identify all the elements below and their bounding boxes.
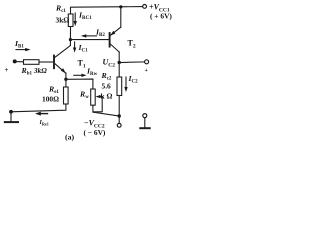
wire Re1 bottom to ground xyxy=(11,104,66,112)
svg-text:100Ω: 100Ω xyxy=(42,95,59,104)
current arrow IB1 xyxy=(16,48,31,51)
wire Rc1 bottom to node A xyxy=(69,27,71,46)
node rail junction (T2 emitter to +VCC1 rail) xyxy=(119,5,122,8)
svg-text:5.6: 5.6 xyxy=(102,82,112,91)
resistor R3 (Rc2) xyxy=(117,77,122,96)
wire top +VCC1 rail xyxy=(71,7,143,14)
svg-text:3kΩ: 3kΩ xyxy=(56,16,70,25)
current arrow IRw xyxy=(74,74,87,77)
wire Rb1 to T1 base xyxy=(39,61,53,63)
resistor Rb1 xyxy=(24,60,40,65)
ground (right, with terminal) xyxy=(140,114,149,129)
wire Rw bottom to -VCC2 node xyxy=(93,105,117,116)
potentiometer Rw xyxy=(91,89,103,112)
resistor R1 (Rc1) xyxy=(68,14,73,27)
svg-text:k Ω: k Ω xyxy=(101,92,113,101)
wire node A to T2 base xyxy=(70,39,108,41)
current arrow IB2 xyxy=(81,34,97,37)
transistor Q1 (T1) xyxy=(54,46,70,80)
svg-text:(a): (a) xyxy=(65,133,74,142)
ground (left) xyxy=(5,110,18,122)
output terminal xyxy=(145,60,149,64)
wire input to Rb1 xyxy=(15,61,24,63)
power terminal -VCC2 xyxy=(117,123,121,127)
svg-text:( + 6V): ( + 6V) xyxy=(150,12,172,21)
svg-text:IRe1: IRe1 xyxy=(39,120,49,126)
resistor R2 (Re1) xyxy=(64,87,69,104)
power terminal +VCC1 xyxy=(143,5,147,9)
svg-text:+: + xyxy=(5,66,9,74)
current arrow IC2 xyxy=(124,77,127,92)
wire Re1 top xyxy=(65,79,67,87)
current arrow IRC1 xyxy=(74,13,77,26)
wire output node down to Rc2 xyxy=(118,63,120,78)
wire output node to output terminal xyxy=(119,61,144,64)
node B (T1 emitter junction) xyxy=(64,78,67,81)
wire Rc2 bottom to -VCC2 node xyxy=(118,96,120,124)
current arrow IC1 xyxy=(73,42,76,53)
input terminal xyxy=(13,59,17,63)
wire T1 emitter node to Rw xyxy=(66,79,93,89)
current arrow IRe1 xyxy=(35,112,48,116)
node D (-VCC2 junction) xyxy=(118,114,121,117)
node C (output node, T2 collector) xyxy=(118,61,121,64)
svg-text:( − 6V): ( − 6V) xyxy=(84,128,106,137)
node A (T1 collector / T2 base junction) xyxy=(69,38,72,41)
svg-text:+: + xyxy=(145,68,149,74)
transistor Q2 (T2, PNP) xyxy=(110,7,121,63)
